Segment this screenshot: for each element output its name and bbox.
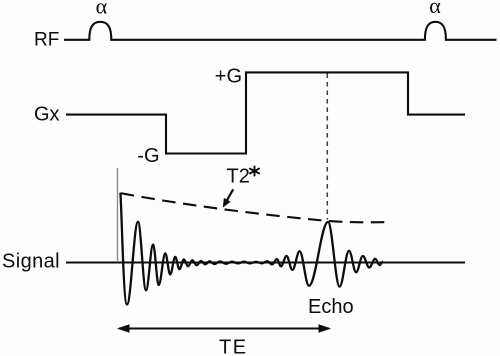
svg-text:Signal: Signal [2, 250, 60, 272]
TE arrow left head [117, 324, 130, 332]
T2* pointer arrow shaft [225, 189, 233, 204]
svg-text:TE: TE [219, 337, 248, 356]
TE arrow right head [319, 324, 332, 332]
svg-text:-G: -G [137, 145, 159, 167]
signal baseline [66, 261, 465, 263]
svg-text:T2: T2 [227, 166, 250, 188]
RF line with alpha pulse 1 and alpha pulse 2 [64, 22, 497, 40]
T2* pointer arrow head [223, 198, 231, 208]
T2* superscript asterisk [250, 166, 259, 175]
FID and echo signal waveform [120, 193, 383, 305]
svg-text:+G: +G [215, 66, 242, 88]
FID start marker vertical gray line [117, 168, 119, 262]
TE interval double-headed arrow shaft [119, 327, 329, 329]
svg-text:Echo: Echo [308, 296, 354, 318]
svg-text:Gx: Gx [34, 104, 60, 126]
svg-text:α: α [96, 0, 108, 18]
T2* decay dashed curve [121, 193, 390, 222]
vertical dashed line at echo center [326, 74, 328, 220]
svg-text:RF: RF [34, 29, 59, 50]
Gx gradient waveform: negative lobe then positive readout lobe [66, 72, 465, 153]
svg-text:α: α [429, 0, 441, 18]
